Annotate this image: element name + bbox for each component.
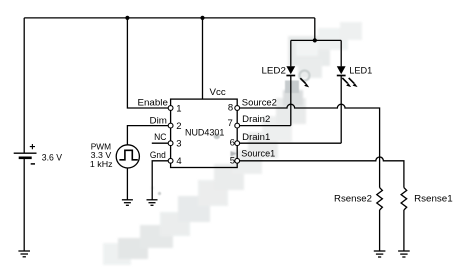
- svg-text:7: 7: [228, 118, 233, 129]
- wire source2: [240, 104, 380, 187]
- svg-text:5: 5: [230, 155, 235, 166]
- wire battery bottom: [23, 159, 25, 251]
- ground rsense2: [374, 251, 386, 257]
- transistor U1 NUD4301 box: [171, 99, 238, 167]
- pin 8: [235, 106, 240, 111]
- wire LED1 anode: [340, 40, 342, 66]
- pin 1: [168, 106, 173, 111]
- svg-text:3: 3: [176, 139, 181, 150]
- svg-text:Gnd: Gnd: [150, 150, 166, 161]
- wire source1: [240, 157, 404, 188]
- resistor Rsense1: [401, 188, 407, 210]
- svg-text:NUD4301: NUD4301: [185, 127, 224, 138]
- svg-text:Dim: Dim: [150, 115, 167, 126]
- wire LED1 cathode: [340, 76, 342, 144]
- svg-text:3.6 V: 3.6 V: [42, 152, 62, 162]
- wire led bridge: [291, 39, 341, 41]
- svg-text:NC: NC: [154, 132, 166, 143]
- svg-text:8: 8: [228, 103, 233, 114]
- svg-text:Rsense1: Rsense1: [414, 194, 453, 205]
- node junction enable: [125, 16, 129, 20]
- svg-text:Enable: Enable: [138, 97, 168, 108]
- ground ic gnd: [147, 200, 158, 206]
- ground rsense1: [398, 251, 410, 257]
- svg-text:Drain1: Drain1: [242, 132, 270, 143]
- svg-text:LED1: LED1: [349, 65, 372, 76]
- svg-text:Drain2: Drain2: [242, 114, 270, 125]
- wire vcc vertical: [202, 18, 204, 99]
- node junction led bridge: [313, 38, 317, 42]
- pin 5: [235, 158, 240, 163]
- wire pwm bottom: [126, 168, 128, 200]
- wire battery top: [23, 18, 25, 153]
- wire rsense2 bottom: [379, 210, 381, 251]
- svg-text:Source2: Source2: [242, 97, 277, 108]
- ground pwm: [122, 200, 133, 206]
- wire LED2 cathode: [290, 76, 292, 126]
- ground battery: [18, 251, 30, 257]
- LED D1: [337, 66, 358, 87]
- svg-text:4: 4: [176, 156, 181, 167]
- pin 3: [168, 141, 173, 146]
- svg-text:1 kHz: 1 kHz: [90, 159, 113, 169]
- PWM source V1: [116, 145, 139, 168]
- wire drain1: [240, 142, 342, 144]
- wire dim: [127, 126, 168, 145]
- pin 6: [235, 141, 240, 146]
- pin 7: [235, 123, 240, 128]
- svg-text:6: 6: [230, 138, 235, 149]
- wire rsense1 bottom: [403, 210, 405, 251]
- battery BT1 3.6 V: [14, 144, 62, 164]
- resistor Rsense2: [377, 188, 383, 210]
- svg-text:1: 1: [176, 104, 181, 115]
- svg-text:Vcc: Vcc: [210, 87, 226, 98]
- svg-text:Source1: Source1: [241, 148, 275, 159]
- wire LED2 anode: [290, 40, 292, 66]
- wire nc stub: [152, 142, 168, 144]
- wire gnd pin: [152, 161, 168, 200]
- LED D2: [286, 66, 309, 87]
- svg-text:Rsense2: Rsense2: [334, 194, 372, 205]
- wire enable vertical: [127, 18, 168, 108]
- svg-text:LED2: LED2: [262, 66, 286, 77]
- svg-text:2: 2: [176, 121, 181, 132]
- pin 2: [168, 123, 173, 128]
- node junction vcc: [200, 16, 204, 20]
- wire top rail: [24, 17, 315, 19]
- wire drain2: [240, 125, 291, 127]
- pin 4: [168, 158, 173, 163]
- wire top right corner: [314, 18, 316, 41]
